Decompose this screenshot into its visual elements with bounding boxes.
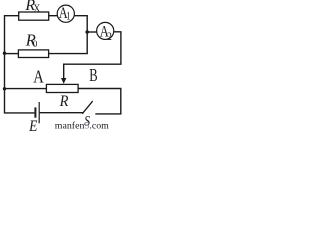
- svg-text:A: A: [33, 68, 44, 86]
- svg-text:B: B: [89, 66, 97, 86]
- svg-text:2: 2: [107, 30, 112, 43]
- svg-text:1: 1: [66, 11, 70, 23]
- svg-text:0: 0: [33, 39, 38, 49]
- svg-text:E: E: [28, 118, 37, 131]
- svg-text:R: R: [59, 92, 69, 110]
- svg-text:X: X: [34, 2, 41, 15]
- svg-text:manfen5.com: manfen5.com: [55, 120, 109, 131]
